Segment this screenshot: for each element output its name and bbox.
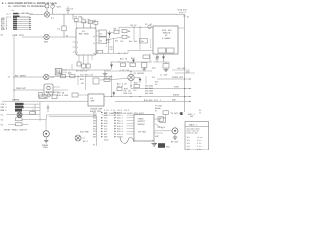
svg-text:AC IN: AC IN xyxy=(22,12,29,15)
label riser pins xyxy=(106,39,108,48)
svg-text:R24 R25: R24 R25 xyxy=(144,99,153,102)
svg-text:MODULE: MODULE xyxy=(138,123,146,126)
svg-text:NE-2: NE-2 xyxy=(83,140,89,143)
wire Q1 collector up xyxy=(130,72,132,75)
svg-text:ALL CAPACITORS IN MICROFARADS: ALL CAPACITORS IN MICROFARADS xyxy=(8,5,46,8)
resistor R1 xyxy=(73,14,78,21)
antenna switch area xyxy=(155,111,183,144)
capacitor C3 xyxy=(148,25,151,28)
wire row sync xyxy=(131,88,190,90)
svg-text:.01: .01 xyxy=(107,41,110,44)
svg-text:WHT/GRN: WHT/GRN xyxy=(145,92,153,95)
label U2 xyxy=(162,29,172,40)
svg-text:+12V: +12V xyxy=(56,6,62,9)
svg-text:VIDEO OUT: VIDEO OUT xyxy=(172,76,184,79)
resistor R35 xyxy=(163,111,168,115)
wire step rail xyxy=(128,50,153,53)
resistor R27 xyxy=(70,75,75,78)
power source B1 xyxy=(51,4,55,14)
ground U4 xyxy=(152,144,158,147)
capacitor C14 xyxy=(93,78,99,84)
label cluster2 xyxy=(124,90,133,95)
label spkr values xyxy=(57,91,69,96)
resistor R5 xyxy=(114,30,119,33)
label T3 windings xyxy=(56,70,61,75)
wire K2 out xyxy=(106,37,122,40)
svg-text:AC N: AC N xyxy=(7,15,11,18)
wire Q1 base xyxy=(100,79,128,81)
pin stubs U1 left xyxy=(73,42,77,52)
wire osc gnd rail xyxy=(153,61,170,63)
crystal Y2 xyxy=(167,48,175,53)
resistor R2 xyxy=(82,20,86,28)
switch S1 row xyxy=(1,114,17,117)
resistor R9 xyxy=(77,62,81,66)
resistor R33 xyxy=(52,95,57,99)
table frame xyxy=(185,122,209,151)
inductor L1 xyxy=(163,62,169,68)
wire riser3 xyxy=(111,75,113,97)
svg-text:R32 C18: R32 C18 xyxy=(46,91,55,94)
power rail V+ bus xyxy=(52,14,185,112)
wire color bundle riser xyxy=(145,76,147,84)
label mid pins xyxy=(110,46,113,52)
relay K1 xyxy=(99,30,106,36)
node N xyxy=(139,96,140,97)
lamp DS4 xyxy=(75,135,81,141)
label tp row xyxy=(120,40,138,43)
wire ground return row xyxy=(2,99,88,102)
label pin column U1 out xyxy=(107,39,119,45)
svg-text:1: 1 xyxy=(77,41,78,44)
wire mic to filter xyxy=(49,75,112,78)
tick bus corner xyxy=(183,15,186,17)
svg-text:C24: C24 xyxy=(107,39,110,42)
node S xyxy=(87,69,88,70)
wire spkr out2 xyxy=(53,91,60,93)
svg-text:R37 56K: R37 56K xyxy=(129,40,138,43)
svg-text:CH 3/4: CH 3/4 xyxy=(158,126,166,129)
resistor R34 xyxy=(30,112,36,115)
wire to jack J6 xyxy=(155,130,172,132)
transformer T3 xyxy=(55,69,62,76)
node A input row xyxy=(1,34,44,37)
speaker LS1 xyxy=(44,84,53,95)
svg-text:DS4 PWR: DS4 PWR xyxy=(80,131,89,134)
svg-text:R36: R36 xyxy=(115,39,118,42)
wire mid rail xyxy=(110,61,152,63)
node E xyxy=(139,27,140,28)
label right notes xyxy=(155,105,163,113)
capacitor C2 xyxy=(62,14,66,37)
svg-text:R19 10K: R19 10K xyxy=(124,92,133,95)
svg-text:R30 8 OHM: R30 8 OHM xyxy=(57,94,69,97)
svg-text:AUDIO: AUDIO xyxy=(173,94,180,97)
relay K2 xyxy=(99,37,106,43)
svg-text:TABLE 1: TABLE 1 xyxy=(189,123,198,126)
terminal strip TB1 xyxy=(158,143,165,148)
balun T2 xyxy=(160,118,166,122)
wire left return bus xyxy=(13,36,15,102)
wire DS2 to U1 xyxy=(49,36,76,38)
svg-text:ORN 7: ORN 7 xyxy=(1,28,8,31)
wire S1 up xyxy=(32,109,34,112)
wire to lamp DS2 xyxy=(22,36,44,38)
wire row mic xyxy=(8,74,44,78)
wire row spkr xyxy=(14,87,44,90)
resistor R32 xyxy=(39,95,44,99)
diode CR4 xyxy=(112,91,115,97)
label block above xyxy=(144,99,162,102)
svg-text:TP5: TP5 xyxy=(187,148,190,150)
svg-text:7: 7 xyxy=(106,45,107,48)
switch S2 row xyxy=(1,118,47,122)
svg-text:+5V OUT: +5V OUT xyxy=(177,67,186,70)
svg-text:R12 C6: R12 C6 xyxy=(120,58,128,61)
lamp DS2 xyxy=(44,34,49,39)
jack J6 xyxy=(172,128,178,134)
resistor R7 xyxy=(122,35,127,38)
lamp DS1 xyxy=(44,12,49,17)
wire drop L xyxy=(85,76,87,90)
table row 1 xyxy=(187,136,204,139)
svg-text:14: 14 xyxy=(93,35,95,38)
svg-text:C26: C26 xyxy=(110,48,113,51)
transistor Q1 xyxy=(128,74,134,80)
node D xyxy=(133,27,134,28)
svg-text:C12 R28 C13: C12 R28 C13 xyxy=(80,73,94,76)
pin stubs U1 bottom xyxy=(79,55,92,64)
svg-text:3: 3 xyxy=(77,51,78,54)
wire under-U1 row xyxy=(96,52,128,54)
wire shield bus xyxy=(96,116,98,146)
wire drop x72 xyxy=(71,64,73,70)
ground U1 xyxy=(103,70,107,76)
svg-text:+12V A: +12V A xyxy=(179,11,187,14)
table row 2 xyxy=(187,139,203,142)
diode CR2 xyxy=(162,54,165,62)
junction node B xyxy=(13,76,14,77)
table row 3 xyxy=(187,142,203,145)
junction node C xyxy=(13,89,14,90)
svg-text:AC H: AC H xyxy=(7,13,11,16)
svg-text:C23 .1: C23 .1 xyxy=(154,99,162,102)
svg-text:P2: P2 xyxy=(155,109,157,112)
wire bias drop xyxy=(118,27,120,31)
wire aux out xyxy=(172,69,190,71)
tick mark left of table xyxy=(180,112,182,115)
capacitor C18 xyxy=(47,94,50,97)
node F xyxy=(118,53,119,54)
diode CR5 xyxy=(139,78,142,84)
resistor R10 xyxy=(82,64,86,68)
harness list P1 xyxy=(93,111,134,146)
wire R1 drop xyxy=(75,22,77,28)
node J xyxy=(184,96,185,97)
wire jack stem xyxy=(45,137,47,141)
svg-text:C29: C29 xyxy=(133,89,136,92)
svg-text:RF MOD: RF MOD xyxy=(139,131,147,134)
wire U2 to bus xyxy=(178,27,185,29)
wire aux out2 xyxy=(175,72,195,74)
svg-text:R8 1K: R8 1K xyxy=(131,24,138,27)
label left rows xyxy=(155,81,159,86)
svg-text:4.7K 220: 4.7K 220 xyxy=(120,69,130,72)
wire input to lamp xyxy=(29,14,44,16)
wire U4 out xyxy=(154,118,161,120)
connector J1 xyxy=(1,9,33,31)
emitter arrow Q1 xyxy=(130,85,131,87)
wire lamp to bus xyxy=(50,13,52,15)
wire R35 drop xyxy=(165,114,167,118)
svg-text:BRN 3: BRN 3 xyxy=(1,109,8,112)
resistor R20 xyxy=(134,84,139,87)
wire bias rail xyxy=(119,26,153,28)
label cluster3 xyxy=(80,73,94,85)
resistor R12 xyxy=(121,63,126,67)
capacitor C28 xyxy=(97,50,103,53)
svg-text:11: 11 xyxy=(93,52,95,55)
label row labels xyxy=(120,57,135,61)
pin labels U2 xyxy=(150,38,152,49)
pin stubs U1 right xyxy=(96,31,99,53)
switch S3 row xyxy=(1,123,29,127)
resistor R13 xyxy=(130,63,135,67)
svg-text:TP2: TP2 xyxy=(120,40,123,43)
wire J4 riser xyxy=(39,101,41,121)
wire lower rail2 xyxy=(106,70,152,72)
label U3 part xyxy=(90,107,103,113)
capacitor C27 xyxy=(47,105,49,113)
svg-text:3.58MHZ: 3.58MHZ xyxy=(162,37,171,40)
wire spkr rail xyxy=(53,89,68,91)
svg-text:11.4V: 11.4V xyxy=(197,136,203,139)
capacitor C19 xyxy=(158,117,163,121)
ground jack xyxy=(44,141,48,143)
connector J4 xyxy=(1,103,41,112)
lamp DS3 xyxy=(44,74,49,79)
label U4 xyxy=(138,118,147,134)
svg-text:TP3: TP3 xyxy=(187,142,190,145)
svg-text:C3 .01: C3 .01 xyxy=(145,23,153,26)
table paragraph xyxy=(187,127,200,134)
resistor R31 xyxy=(72,93,78,97)
node L xyxy=(111,96,112,97)
resistor R18 xyxy=(117,88,122,91)
ground osc xyxy=(164,68,169,72)
label U1 xyxy=(79,30,89,36)
op-amp U1 xyxy=(76,28,96,55)
wire balun diag xyxy=(155,124,163,129)
label J5 xyxy=(42,144,49,149)
wire shield coil xyxy=(120,137,134,144)
resistor R4 xyxy=(94,21,98,28)
svg-text:JACK: JACK xyxy=(43,146,49,149)
capacitor C22 xyxy=(156,57,159,58)
ground J6 xyxy=(173,137,177,139)
wire to jack xyxy=(45,119,47,130)
wire R8 drop xyxy=(133,27,135,40)
oscillator module U2 xyxy=(153,26,178,54)
label dark ref xyxy=(140,39,148,43)
label corner note xyxy=(199,109,202,114)
diode CR1 xyxy=(108,31,111,38)
resistor R26 xyxy=(60,75,65,78)
wire S1 out xyxy=(22,114,40,116)
amplifier U3 xyxy=(88,94,104,106)
node H xyxy=(184,78,185,79)
svg-text:DS2: DS2 xyxy=(44,41,49,44)
wire Q1 emitter xyxy=(130,81,132,89)
wire drop K xyxy=(77,76,79,85)
svg-text:J1: J1 xyxy=(12,9,14,12)
node M xyxy=(130,96,131,97)
wire drop x150 xyxy=(149,53,151,62)
capacitor C1 xyxy=(66,7,70,15)
wire K1 out xyxy=(106,32,114,35)
label above table xyxy=(188,113,195,118)
node Q xyxy=(127,61,128,62)
wire bottom rail xyxy=(72,69,111,71)
wire shield pair xyxy=(47,115,97,116)
parts table T1 xyxy=(185,122,209,151)
wire R31 out xyxy=(78,94,88,96)
pin numbers U1 xyxy=(77,35,95,55)
svg-text:TP2: TP2 xyxy=(187,139,190,142)
wire row RF out xyxy=(157,78,190,80)
svg-text:FRONT PANEL SWITCH: FRONT PANEL SWITCH xyxy=(4,128,28,131)
svg-text:CHASSIS GND: CHASSIS GND xyxy=(187,132,198,135)
wire U4 gnd lead xyxy=(152,140,156,144)
wire U4 out2 xyxy=(154,132,163,134)
table row 4 xyxy=(187,145,203,148)
wire J4 riser2 xyxy=(34,104,36,114)
svg-text:2: 2 xyxy=(77,46,78,49)
svg-text:REG 7805: REG 7805 xyxy=(79,33,89,36)
jack J5 xyxy=(43,131,49,137)
wire row gnd2 xyxy=(115,101,190,103)
wire q1 collector join xyxy=(134,77,140,79)
node O xyxy=(130,71,131,72)
crystal Y1 xyxy=(158,48,166,53)
wire T3 rail xyxy=(62,69,72,71)
ground C7 xyxy=(142,68,146,71)
wire resistor rail xyxy=(74,21,96,23)
svg-text:RF OUT: RF OUT xyxy=(171,141,179,144)
capacitor C7 xyxy=(142,63,147,68)
node K xyxy=(77,76,78,77)
svg-text:R40: R40 xyxy=(110,46,113,49)
wire spkr out1 xyxy=(53,86,60,88)
capacitor C15 xyxy=(39,92,43,97)
svg-text:TP1: TP1 xyxy=(187,136,190,139)
rotary switch S1 xyxy=(17,112,22,117)
wire DS4 stub xyxy=(81,137,85,139)
svg-text:13: 13 xyxy=(93,42,95,45)
modulator module U4 xyxy=(134,115,154,142)
wire Q1 drop xyxy=(139,27,141,50)
svg-text:W2: W2 xyxy=(66,34,68,37)
table row 5 xyxy=(187,148,203,151)
resistor R3 xyxy=(88,21,92,28)
resistor R14 xyxy=(143,55,149,58)
diode CR3 xyxy=(110,63,113,70)
resistor R6 xyxy=(122,29,127,32)
wire riser1 xyxy=(108,38,110,53)
label U3 xyxy=(91,97,95,103)
table header rule xyxy=(185,126,209,128)
wire J6 stem xyxy=(174,134,176,137)
svg-text:SYNC: SYNC xyxy=(174,86,180,89)
node R xyxy=(83,69,84,70)
label wire colors xyxy=(145,84,154,95)
capacitor C16 xyxy=(45,95,48,99)
wire S2 riser xyxy=(46,115,48,120)
diode CR7 xyxy=(132,59,135,63)
resistor R11 xyxy=(86,64,90,68)
capacitor C4 xyxy=(156,54,159,62)
svg-text:TP4: TP4 xyxy=(187,145,190,148)
svg-text:L1 470: L1 470 xyxy=(160,74,168,77)
fuse F1 xyxy=(45,4,49,12)
wire riser2 xyxy=(113,38,115,53)
node P xyxy=(118,61,119,62)
label bus corner xyxy=(178,9,188,15)
note 1 text xyxy=(2,2,58,8)
label cluster1 xyxy=(117,83,128,91)
label C20 C21 xyxy=(64,68,72,74)
wire row audio xyxy=(104,96,190,98)
svg-text:Q1 2N2222: Q1 2N2222 xyxy=(134,72,146,75)
node I xyxy=(184,88,185,89)
resistor R16 xyxy=(104,78,110,81)
node G xyxy=(124,53,125,54)
